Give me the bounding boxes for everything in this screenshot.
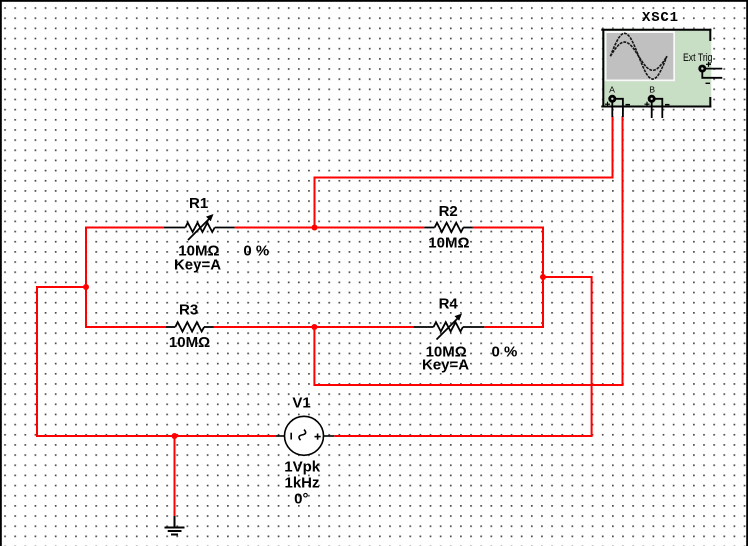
wire: [315, 227, 425, 229]
svg-text:Key=A: Key=A: [174, 257, 221, 274]
voltage source V1: [276, 416, 334, 455]
Ext Trig terminal: [700, 66, 705, 71]
svg-text:10MΩ: 10MΩ: [428, 235, 469, 252]
svg-text:V1: V1: [292, 395, 310, 412]
svg-text:0°: 0°: [294, 491, 308, 508]
scope waveform trace 2: [610, 42, 667, 70]
op-amp XSC1 oscilloscope: [601, 10, 722, 118]
resistor R1 (potentiometer): [164, 214, 235, 240]
svg-text:A: A: [609, 85, 615, 95]
svg-text:Key=A: Key=A: [422, 357, 469, 374]
channel B terminal: [649, 96, 654, 101]
wire: [174, 436, 176, 517]
scope waveform trace 1: [610, 33, 667, 79]
ground: [165, 516, 185, 535]
svg-text:R2: R2: [439, 203, 458, 220]
wire: [334, 277, 591, 436]
junction dot (ground tap): [172, 433, 178, 439]
channel A terminal: [610, 96, 615, 101]
junction dot node (right bridge): [540, 274, 546, 280]
wire: [235, 227, 315, 229]
svg-text:R3: R3: [179, 302, 198, 319]
wire: [37, 287, 276, 436]
wire: [86, 228, 164, 288]
scope screen: [605, 31, 675, 81]
wire: [214, 326, 414, 328]
pin A-: [622, 108, 624, 118]
wire: [473, 228, 543, 328]
junction dot node (R3-R4 bottom mid): [311, 324, 317, 330]
svg-text:1kHz: 1kHz: [284, 475, 319, 492]
wire: [314, 116, 622, 385]
resistor R4 (potentiometer): [413, 314, 484, 340]
wire: [86, 287, 166, 327]
scope body: [602, 29, 711, 108]
pin B+: [651, 102, 653, 119]
junction dot node A (R1-R2 top mid): [312, 225, 318, 231]
svg-text:R1: R1: [189, 195, 208, 212]
svg-text:R4: R4: [439, 296, 459, 313]
pin A+: [611, 102, 613, 118]
svg-text:0 %: 0 %: [491, 344, 517, 361]
svg-text:0 %: 0 %: [243, 243, 269, 260]
wire: [315, 116, 613, 228]
resistor R2: [424, 223, 473, 232]
svg-text:B: B: [649, 85, 655, 95]
junction dot node (left bridge): [83, 284, 89, 290]
resistor R3: [166, 322, 214, 331]
pin B-: [661, 108, 663, 119]
svg-text:XSC1: XSC1: [642, 10, 679, 26]
svg-text:1Vpk: 1Vpk: [284, 459, 321, 476]
svg-text:10MΩ: 10MΩ: [169, 334, 210, 351]
